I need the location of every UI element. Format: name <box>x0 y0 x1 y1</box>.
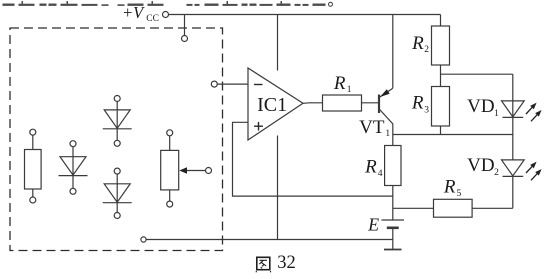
svg-text:1: 1 <box>385 129 390 139</box>
svg-text:2: 2 <box>494 168 499 178</box>
svg-text:IC1: IC1 <box>257 94 287 116</box>
svg-text:3: 3 <box>424 106 429 116</box>
svg-text:CC: CC <box>146 14 159 24</box>
svg-text:4: 4 <box>378 169 383 179</box>
svg-text:VT: VT <box>359 117 385 138</box>
svg-text:E: E <box>367 214 379 234</box>
svg-text:2: 2 <box>424 45 429 55</box>
svg-text:1: 1 <box>494 109 499 119</box>
svg-text:VD: VD <box>467 155 494 176</box>
svg-text:R: R <box>443 177 456 198</box>
svg-text:5: 5 <box>457 189 462 199</box>
svg-text:R: R <box>364 157 377 178</box>
svg-text:32: 32 <box>277 253 296 273</box>
svg-text:R: R <box>411 33 424 54</box>
svg-text:R: R <box>411 93 424 114</box>
svg-text:VD: VD <box>467 96 494 117</box>
svg-text:+V: +V <box>122 3 145 22</box>
svg-text:R: R <box>333 73 346 94</box>
svg-text:1: 1 <box>347 85 352 95</box>
